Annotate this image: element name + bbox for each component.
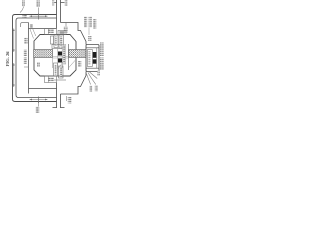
label bottom tick: [68, 97, 72, 104]
seal black lower: [58, 59, 62, 63]
leader top-left curve: [20, 7, 24, 13]
upper shelf box: [58, 31, 66, 35]
label box mid: [54, 35, 58, 48]
tick bottom mid: [66, 96, 68, 101]
svg-text:FIG. 26: FIG. 26: [5, 51, 10, 67]
bracket: [52, 45, 62, 49]
text in top notch box: [48, 30, 54, 34]
label pipe-left: [52, 0, 54, 6]
hub box: [86, 45, 99, 72]
label col1 top-right: [84, 17, 87, 28]
lower label box: [54, 63, 58, 76]
column right wall: [68, 44, 70, 70]
label top-mid: [37, 1, 41, 8]
left small tick: [24, 66, 29, 68]
top notch box: [45, 29, 57, 35]
lower bracket line: [54, 79, 66, 81]
inner vessel wall: [16, 18, 57, 98]
shelf text: [60, 31, 65, 34]
tick under col2: [88, 28, 90, 36]
box right: [59, 35, 64, 48]
hub seal black lower: [93, 59, 97, 63]
text in box A: [55, 37, 57, 47]
top pipe: [53, 0, 65, 29]
chamber left wall: [28, 23, 30, 94]
outer vessel wall: [13, 15, 57, 102]
text strip col: [63, 45, 65, 63]
label pipe-right: [65, 0, 68, 6]
text in lower box: [55, 65, 57, 75]
label left wall a: [24, 38, 27, 44]
label left wall c: [24, 58, 27, 65]
label top-left: [22, 1, 25, 7]
tick top mid: [65, 23, 67, 27]
dimension left lower: [13, 63, 15, 87]
rotor outline: [34, 35, 76, 77]
text in hub box: [89, 51, 91, 65]
label right upper: [100, 43, 104, 57]
hub label box: [88, 50, 93, 67]
chamber bottom line: [29, 88, 57, 90]
small mark lower-left chamber: [37, 62, 40, 67]
slants below hatch: [58, 61, 76, 70]
text in bottom notch box: [48, 78, 54, 82]
fan label b: [95, 85, 98, 91]
label col2 top-right: [89, 17, 92, 28]
top step wall: [61, 23, 87, 45]
hatch left: [34, 50, 86, 58]
bottom notch box: [45, 76, 57, 83]
label corner: [30, 24, 33, 28]
text in box B: [60, 37, 62, 47]
label above hub: [88, 36, 91, 41]
small mark lower-right chamber: [78, 61, 81, 67]
dimension top: [30, 8, 48, 20]
label left wall b: [24, 50, 27, 57]
reference numeral marks (tiny gray labels): [22, 0, 104, 113]
bottom pipe: [53, 83, 65, 109]
seal black upper: [58, 52, 62, 56]
label top tick: [64, 27, 68, 33]
hub seal black upper: [93, 52, 97, 58]
dimension left upper: [13, 29, 15, 53]
hub inner right edge: [96, 48, 98, 68]
hatch right shaft: [69, 50, 87, 58]
leader fan bottom-right: [86, 72, 97, 85]
fan label c: [97, 71, 100, 77]
text strip box: [62, 45, 66, 65]
bottom step wall: [61, 72, 87, 95]
label right lower: [100, 58, 104, 71]
column left wall: [52, 49, 54, 69]
dimension bottom: [30, 97, 48, 107]
lower box right: [59, 66, 64, 78]
small box left: [51, 36, 54, 44]
chamber top line: [29, 28, 57, 30]
chamber corner: [21, 23, 29, 28]
component column upper boxes: [51, 35, 69, 80]
axis lines: [53, 57, 69, 59]
fan label a: [89, 86, 92, 92]
seal housing verticals: [58, 49, 62, 69]
label on inner wall: [23, 15, 28, 18]
leader slant upper-left: [30, 29, 36, 39]
label bottom: [36, 107, 40, 114]
text in lower box B: [60, 68, 63, 78]
